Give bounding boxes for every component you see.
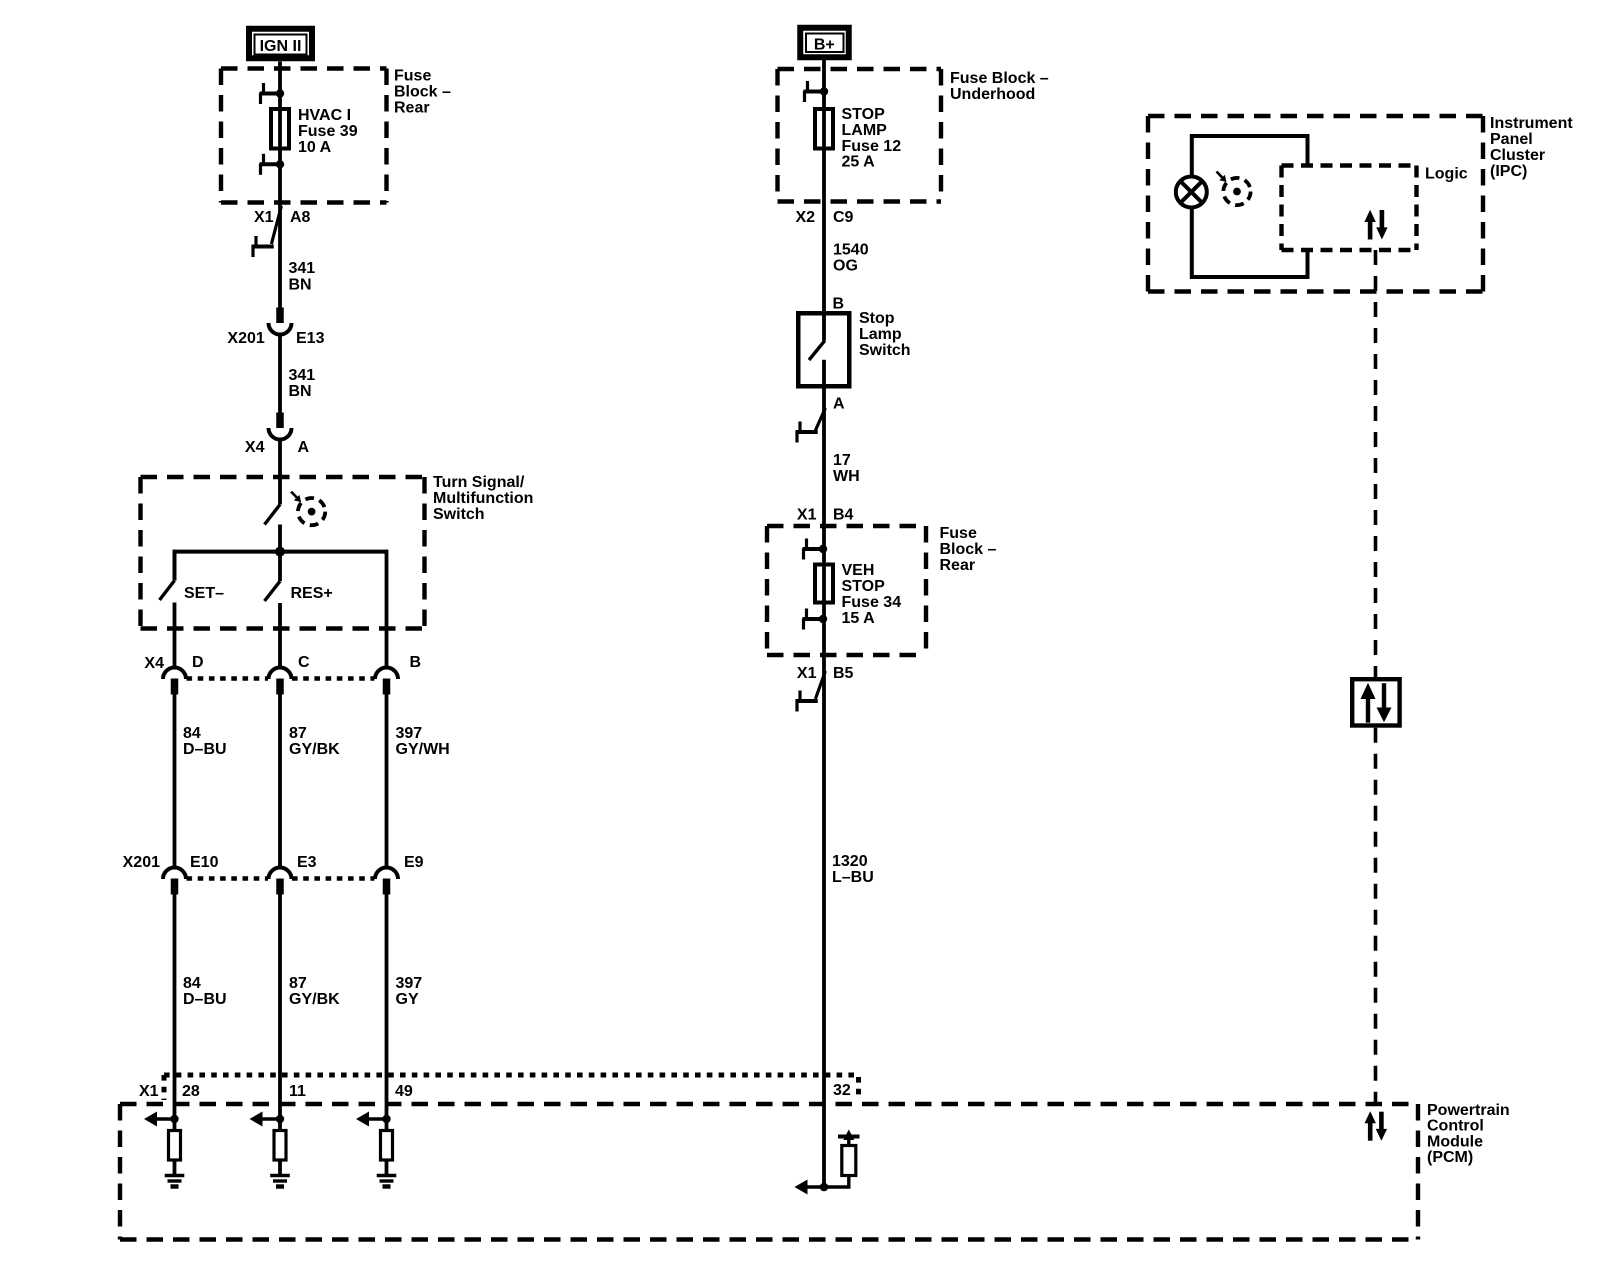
- label Instrument Panel Cluster (IPC): [1490, 115, 1573, 180]
- svg-text:A8: A8: [290, 209, 311, 226]
- svg-text:E13: E13: [296, 330, 325, 347]
- in-line connector X4 pin A: [269, 413, 292, 440]
- svg-text:D–BU: D–BU: [183, 991, 227, 1008]
- ground: [270, 1176, 290, 1187]
- svg-text:X1: X1: [797, 665, 817, 682]
- svg-text:A: A: [833, 395, 845, 412]
- connector X1 pin B4 labels: [797, 506, 854, 523]
- resistor pull-down pin 28: [169, 1131, 181, 1161]
- wire: [278, 94, 282, 165]
- power feed box B+: [800, 28, 849, 58]
- connector X4 pin B: [375, 668, 398, 695]
- svg-text:49: 49: [395, 1083, 413, 1100]
- clip terminal above fuse 12: [804, 81, 829, 102]
- resistor pull-up pin 32: [842, 1146, 856, 1176]
- svg-text:X1: X1: [797, 506, 817, 523]
- wire X4 into switch: [278, 440, 282, 505]
- wire lever to bus: [278, 525, 282, 552]
- switch RES+ lever: [265, 581, 281, 601]
- label Turn Signal / Multifunction Switch: [433, 474, 533, 523]
- wire inside switch to A: [822, 360, 826, 432]
- power feed box IGN II: [249, 29, 312, 59]
- in-line connector X201 pin E13: [269, 308, 292, 335]
- connector X1 pin labels: [139, 1082, 851, 1100]
- SET- branch wire: [173, 550, 177, 581]
- svg-text:D–BU: D–BU: [183, 741, 227, 758]
- svg-text:Powertrain: Powertrain: [1427, 1102, 1510, 1119]
- wire IPC internal loop top: [1192, 136, 1308, 177]
- svg-text:E9: E9: [404, 854, 424, 871]
- svg-text:1540: 1540: [833, 241, 869, 258]
- svg-text:Fuse 39: Fuse 39: [298, 123, 358, 140]
- connector row X4 labels: [144, 654, 421, 672]
- svg-text:Panel: Panel: [1490, 131, 1533, 148]
- svg-text:11: 11: [289, 1083, 306, 1100]
- wire E9 to PCM 49: [385, 895, 389, 1120]
- connector X1 dotted harness line: [164, 1073, 859, 1078]
- wire: [822, 549, 826, 680]
- wire fuse 34 to PCM pin 32: [822, 680, 826, 1187]
- wire label 341 BN: [289, 260, 316, 294]
- stop lamp switch box: [798, 313, 849, 386]
- svg-text:X201: X201: [123, 854, 160, 871]
- svg-text:GY/WH: GY/WH: [396, 741, 450, 758]
- svg-text:BN: BN: [289, 383, 312, 400]
- svg-text:1320: 1320: [832, 853, 868, 870]
- svg-text:X2: X2: [796, 209, 816, 226]
- svg-text:15 A: 15 A: [842, 610, 876, 627]
- wire label 87 GY/BK: [289, 975, 340, 1008]
- svg-text:Cluster: Cluster: [1490, 147, 1545, 164]
- svg-text:RES+: RES+: [291, 585, 333, 602]
- serial data dashed wire lower: [1374, 728, 1378, 1104]
- svg-text:X1: X1: [139, 1083, 159, 1100]
- fuse block - underhood dashed box: [778, 69, 942, 202]
- svg-text:STOP: STOP: [842, 106, 886, 123]
- svg-text:10 A: 10 A: [298, 139, 332, 156]
- PCM input arrow pin 11: [250, 1112, 285, 1127]
- wire label 1540 OG: [833, 241, 869, 274]
- clip terminal above fuse 39: [260, 83, 285, 104]
- svg-text:Control: Control: [1427, 1118, 1484, 1135]
- svg-text:BN: BN: [289, 276, 312, 293]
- fuse block - rear dashed box: [221, 69, 387, 203]
- svg-text:Rear: Rear: [394, 99, 430, 116]
- wire to resistor: [173, 1119, 177, 1131]
- svg-text:Stop: Stop: [859, 310, 895, 327]
- svg-text:X4: X4: [245, 439, 265, 456]
- wire D to E10: [173, 695, 177, 869]
- svg-text:Multifunction: Multifunction: [433, 490, 533, 507]
- svg-text:Switch: Switch: [859, 342, 911, 359]
- stop lamp switch lever: [809, 341, 825, 360]
- wire B to E9: [385, 695, 389, 869]
- svg-text:25 A: 25 A: [842, 153, 876, 170]
- data link connector box: [1352, 679, 1399, 725]
- fuse F12 STOP LAMP 25A: [815, 109, 833, 149]
- svg-text:397: 397: [396, 975, 423, 992]
- gauge dial icon: [1217, 172, 1251, 206]
- svg-text:84: 84: [183, 725, 201, 742]
- wire label 87 GY/BK: [289, 725, 340, 758]
- svg-text:SET–: SET–: [184, 585, 224, 602]
- stop lamp switch wire upper contact: [822, 311, 826, 341]
- connector X201 pin E3: [269, 868, 292, 895]
- wire label 341 BN: [289, 367, 316, 400]
- PCM input arrow pin 49: [356, 1112, 391, 1127]
- wire label 397 GY/WH: [396, 725, 450, 758]
- svg-text:28: 28: [182, 1083, 200, 1100]
- wire switch to fuse block rear: [822, 432, 826, 549]
- cruise master switch lever: [265, 505, 281, 525]
- input arrow: [805, 1185, 824, 1188]
- svg-text:Fuse: Fuse: [940, 525, 977, 542]
- wire SET- to X4/D: [173, 603, 177, 668]
- svg-text:Block –: Block –: [394, 83, 451, 100]
- turn signal / multifunction switch dashed box: [141, 477, 425, 629]
- svg-text:Block –: Block –: [940, 541, 997, 558]
- label Stop Lamp Switch: [859, 310, 911, 359]
- svg-text:Fuse 34: Fuse 34: [842, 594, 902, 611]
- svg-text:B: B: [410, 654, 422, 671]
- svg-text:X4: X4: [144, 655, 164, 672]
- wire label 84 D-BU: [183, 725, 227, 758]
- svg-text:HVAC I: HVAC I: [298, 107, 351, 124]
- svg-text:87: 87: [289, 975, 307, 992]
- svg-text:397: 397: [396, 725, 423, 742]
- svg-text:A: A: [298, 439, 310, 456]
- svg-text:Rear: Rear: [940, 557, 976, 574]
- svg-text:Switch: Switch: [433, 506, 485, 523]
- wire IGN II feed to fuse block: [278, 62, 282, 94]
- logic bidirectional arrows: [1364, 210, 1387, 240]
- wire fuse to connector X1: [278, 164, 282, 307]
- svg-text:IGN II: IGN II: [260, 38, 302, 55]
- connector X1 pin B5 labels: [797, 665, 854, 682]
- svg-text:Turn Signal/: Turn Signal/: [433, 474, 525, 491]
- svg-text:OG: OG: [833, 257, 858, 274]
- svg-text:VEH: VEH: [842, 562, 875, 579]
- connector X201 pin E10: [163, 868, 186, 895]
- connector X201 pin E9: [375, 868, 398, 895]
- connector X2 pin C9 labels: [796, 209, 854, 226]
- svg-text:Underhood: Underhood: [950, 86, 1035, 103]
- serial data dashed wire upper: [1374, 250, 1378, 677]
- wire label 1320 L-BU: [832, 853, 874, 886]
- svg-text:B: B: [833, 295, 845, 312]
- connector X4 pin C: [269, 668, 292, 695]
- bus junction: [275, 547, 285, 557]
- clip terminal below fuse 34: [803, 609, 828, 630]
- svg-text:GY: GY: [396, 991, 419, 1008]
- connector dashed ladder X201: [187, 876, 269, 880]
- wire label 17 WH: [833, 452, 860, 485]
- logic dashed box: [1282, 166, 1417, 251]
- clip terminal above fuse 34: [803, 539, 828, 560]
- svg-text:E10: E10: [190, 854, 219, 871]
- svg-text:WH: WH: [833, 468, 860, 485]
- label Fuse Block - Underhood: [950, 70, 1049, 103]
- indicator lamp: [1176, 177, 1207, 208]
- connector X1 pin A8 labels: [254, 209, 311, 226]
- svg-text:87: 87: [289, 725, 307, 742]
- instrument panel cluster IPC dashed box: [1148, 116, 1483, 292]
- svg-text:341: 341: [289, 260, 316, 277]
- wire: [822, 92, 826, 312]
- svg-text:B+: B+: [814, 37, 835, 54]
- svg-text:X1: X1: [254, 209, 274, 226]
- svg-text:C9: C9: [833, 209, 854, 226]
- svg-text:32: 32: [833, 1082, 851, 1099]
- svg-text:B5: B5: [833, 665, 854, 682]
- fuse F34 VEH STOP 15A: [815, 565, 833, 603]
- wire label 84 D-BU: [183, 975, 227, 1008]
- connector X4 pin D: [163, 668, 186, 695]
- svg-text:17: 17: [833, 452, 851, 469]
- fuse F39 HVAC I 10A: [271, 109, 289, 149]
- svg-text:Instrument: Instrument: [1490, 115, 1573, 132]
- wire X201 to X4: [278, 335, 282, 413]
- wire B branch to X4/B: [385, 550, 389, 668]
- wire RES+ to X4/C: [278, 552, 282, 582]
- wire C to E3: [278, 695, 282, 869]
- powertrain control module PCM dashed box: [120, 1104, 1418, 1240]
- connector lead clip at X1/B5: [815, 671, 825, 699]
- ground: [165, 1176, 185, 1187]
- clip terminal below fuse 39: [260, 154, 285, 175]
- connector lead clip below stop lamp switch: [815, 408, 825, 431]
- svg-text:Fuse 12: Fuse 12: [842, 138, 902, 155]
- wire resistor to junction: [824, 1176, 849, 1188]
- label Powertrain Control Module (PCM): [1427, 1102, 1510, 1166]
- svg-text:84: 84: [183, 975, 201, 992]
- PCM stop lamp input: junction: [820, 1183, 829, 1192]
- svg-text:(PCM): (PCM): [1427, 1149, 1473, 1166]
- svg-text:E3: E3: [297, 854, 317, 871]
- wire B+ to fuse block underhood: [822, 60, 826, 92]
- PCM input arrow pin 28: [144, 1112, 179, 1127]
- label Fuse Block - Rear: [940, 525, 997, 574]
- wire E3 to PCM 11: [278, 895, 282, 1120]
- connector dashed ladder X4: [187, 676, 269, 680]
- switch SET- lever: [160, 581, 175, 601]
- svg-text:D: D: [192, 654, 204, 671]
- svg-text:341: 341: [289, 367, 316, 384]
- svg-text:Lamp: Lamp: [859, 326, 902, 343]
- PCM bidirectional arrows: [1365, 1111, 1388, 1140]
- fuse block - rear dashed box (veh stop): [767, 526, 926, 655]
- svg-text:Fuse: Fuse: [394, 67, 431, 84]
- wire label 397 GY: [396, 975, 423, 1008]
- resistor pull-down pin 49: [381, 1131, 393, 1161]
- connector lead clip at X1/A8: [271, 206, 281, 244]
- svg-text:C: C: [298, 654, 310, 671]
- resistor pull-down pin 11: [274, 1131, 286, 1161]
- internal bus wire: [175, 550, 387, 554]
- svg-text:Fuse Block –: Fuse Block –: [950, 70, 1049, 87]
- svg-text:X201: X201: [227, 330, 264, 347]
- svg-text:L–BU: L–BU: [832, 869, 874, 886]
- svg-text:STOP: STOP: [842, 578, 886, 595]
- wire E10 to PCM 28: [173, 895, 177, 1120]
- svg-text:GY/BK: GY/BK: [289, 991, 340, 1008]
- DLC bidirectional arrows: [1361, 683, 1392, 723]
- svg-text:GY/BK: GY/BK: [289, 741, 340, 758]
- pull-up bar and arrow: [838, 1135, 860, 1139]
- svg-text:B4: B4: [833, 506, 854, 523]
- svg-text:(IPC): (IPC): [1490, 163, 1527, 180]
- ground: [377, 1176, 397, 1187]
- wire IPC internal loop bottom: [1192, 208, 1308, 278]
- svg-text:LAMP: LAMP: [842, 122, 888, 139]
- rotary dial icon: [291, 492, 325, 526]
- connector row X201 labels: [123, 854, 424, 871]
- svg-text:Logic: Logic: [1425, 165, 1468, 182]
- label Fuse Block - Rear: [394, 67, 451, 116]
